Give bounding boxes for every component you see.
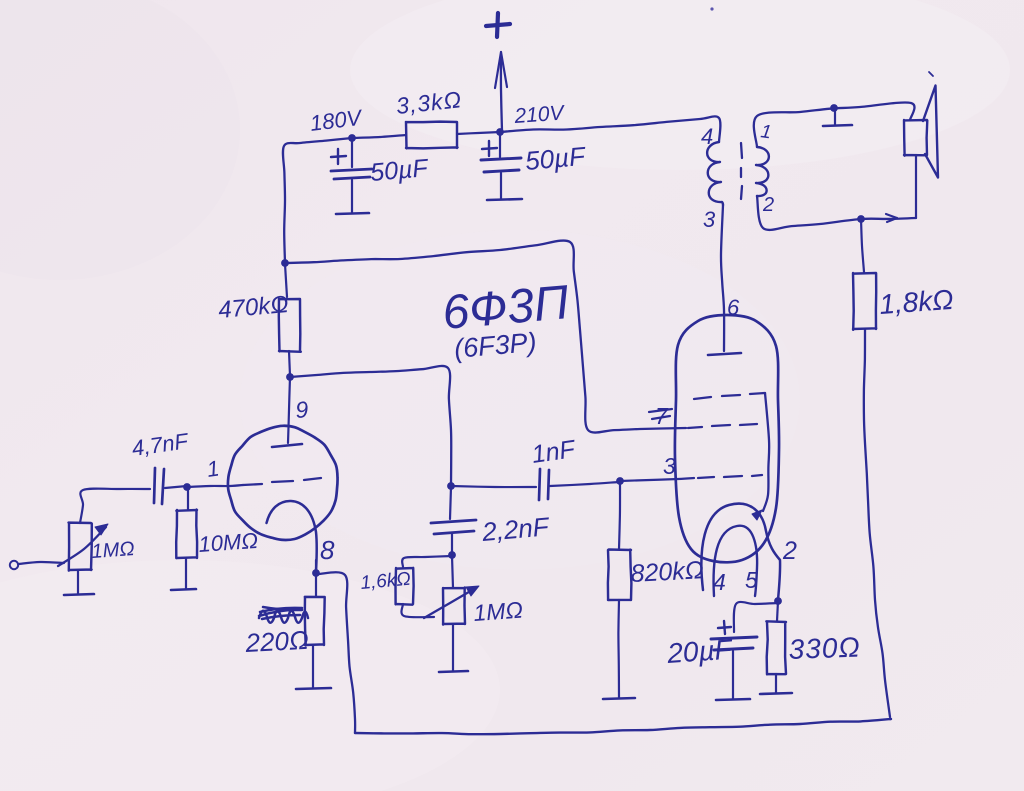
potentiometer 1M input body bbox=[69, 523, 92, 571]
label 20uF bbox=[665, 633, 734, 669]
potentiometer 1M tone body bbox=[443, 588, 465, 625]
tube V1 pentode envelope bbox=[675, 315, 779, 562]
resistor 10M body bbox=[176, 510, 197, 558]
paper speck marks bbox=[710, 7, 933, 76]
wire bottom rail bbox=[355, 719, 891, 734]
label pin 3 pentode bbox=[663, 453, 676, 479]
svg-text:4: 4 bbox=[713, 569, 726, 595]
resistor 220R body bbox=[305, 597, 325, 646]
resistor 470k body bbox=[279, 299, 301, 352]
pentode grid3 dashes bbox=[698, 475, 762, 478]
label pin 4 transformer bbox=[701, 124, 713, 149]
wire node to pentode grid pin 7 bbox=[285, 241, 686, 433]
label 180V bbox=[309, 105, 365, 136]
label 1MΩ input bbox=[91, 538, 135, 563]
ground 10M bbox=[171, 558, 196, 590]
svg-text:50µF: 50µF bbox=[369, 154, 430, 187]
ground secondary top bbox=[823, 109, 852, 126]
label 820kΩ bbox=[630, 556, 705, 588]
wire 3.3k to 210V node bbox=[457, 132, 500, 134]
wire input terminal to pot bbox=[18, 562, 64, 564]
ground input pot bbox=[64, 570, 94, 595]
arrow mark on speaker wire bbox=[886, 214, 897, 222]
pentode cathode outer arc bbox=[701, 504, 780, 600]
svg-text:1MΩ: 1MΩ bbox=[473, 597, 524, 626]
svg-text:4: 4 bbox=[701, 124, 713, 149]
wire junction to 470k bbox=[285, 264, 287, 297]
label pin 1 secondary bbox=[759, 121, 772, 143]
node pentode cathode junction bbox=[774, 597, 782, 605]
ground right 50uF bbox=[487, 173, 522, 200]
svg-text:9: 9 bbox=[295, 396, 310, 423]
wire cathode node to 330R bbox=[777, 601, 778, 621]
svg-text:50µF: 50µF bbox=[524, 141, 588, 176]
wire 470k to triode plate node bbox=[289, 351, 290, 376]
label pin 9 bbox=[295, 396, 310, 423]
wire 1.8k to bottom rail bbox=[864, 329, 890, 717]
label pin 2 secondary bbox=[762, 194, 774, 216]
ground 220R bbox=[296, 645, 331, 689]
label pin 8 bbox=[320, 535, 335, 565]
triode grid dashes bbox=[243, 478, 321, 485]
svg-text:8: 8 bbox=[320, 535, 335, 565]
wire junction down to 1.8k bbox=[861, 219, 864, 272]
label 50uF right bbox=[524, 141, 588, 176]
resistor 3.3k body bbox=[406, 122, 458, 149]
speaker cone bbox=[923, 86, 938, 178]
label 1,8kΩ bbox=[878, 284, 954, 320]
speaker driver box bbox=[904, 120, 927, 156]
svg-text:3: 3 bbox=[703, 207, 716, 232]
node triode plate junction bbox=[286, 373, 294, 381]
svg-text:5: 5 bbox=[745, 567, 758, 593]
label 220Ω bbox=[244, 625, 310, 658]
wire 1nF to 820k node bbox=[550, 482, 619, 486]
resistor 330R body bbox=[766, 621, 786, 674]
potentiometer 1M tone arrow bbox=[424, 586, 479, 618]
svg-text:1MΩ: 1MΩ bbox=[91, 538, 135, 563]
node speaker bottom junction bbox=[857, 215, 865, 223]
wire 4.7n to grid node bbox=[165, 486, 187, 488]
label pin 6 bbox=[727, 295, 740, 320]
transformer secondary coil bbox=[756, 147, 769, 196]
wire coupling node to 2.2nF bbox=[450, 487, 451, 519]
label 1nF bbox=[530, 435, 578, 469]
wire cathode node to 220R bbox=[315, 574, 317, 596]
svg-text:2: 2 bbox=[762, 194, 774, 216]
scribble above 220R bbox=[259, 607, 308, 623]
label 470kΩ bbox=[217, 291, 289, 324]
ground 330R bbox=[760, 674, 792, 694]
triode cathode arc bbox=[267, 501, 317, 572]
node left rail junction bbox=[281, 259, 289, 267]
node 210V junction bbox=[496, 128, 504, 136]
wire 820k node to pentode pin 3 bbox=[620, 478, 694, 481]
power supply + symbol bbox=[486, 13, 510, 37]
resistor 820k body bbox=[608, 550, 632, 601]
svg-text:1,6kΩ: 1,6kΩ bbox=[360, 569, 412, 594]
potentiometer 1M input arrow bbox=[58, 524, 108, 566]
ground 820k bbox=[603, 600, 635, 699]
wire pot to 4.7n cap bbox=[80, 489, 150, 523]
wire node to tone pot bbox=[452, 556, 453, 588]
wire secondary top to speaker bbox=[754, 102, 915, 147]
wire coupling node to 1nF bbox=[451, 486, 536, 487]
label pin 4 pentode bbox=[713, 569, 726, 595]
label pin 2 bbox=[782, 537, 797, 565]
label 210V bbox=[513, 101, 567, 128]
wire secondary bottom to speaker bbox=[757, 196, 916, 230]
node 820k junction bbox=[616, 477, 624, 485]
tube V1 triode envelope bbox=[228, 426, 338, 540]
ground 20uF bbox=[716, 651, 750, 700]
label pin 3 transformer bbox=[703, 207, 716, 232]
node coupling junction bbox=[447, 482, 455, 490]
pentode plate bar bbox=[708, 353, 741, 355]
label 6Ф3П bbox=[440, 276, 571, 340]
svg-text:330Ω: 330Ω bbox=[788, 632, 861, 665]
label 50uF left bbox=[369, 154, 430, 187]
node triode grid junction bbox=[183, 483, 191, 491]
capacitor 50uF left bbox=[331, 138, 372, 179]
wire node to 1.6k bbox=[402, 556, 452, 567]
label pin 1 triode bbox=[205, 455, 221, 481]
svg-text:2: 2 bbox=[782, 537, 797, 565]
transformer primary coil bbox=[707, 142, 723, 205]
label 3,3kΩ bbox=[395, 86, 463, 119]
node speaker top ground junction bbox=[830, 104, 838, 112]
wire triode plate pin 9 bbox=[288, 377, 290, 443]
wire 2.2nF to pot node bbox=[451, 534, 453, 554]
capacitor 20uF plates bbox=[711, 621, 757, 650]
wire triode cathode pin 8 down bbox=[315, 560, 317, 572]
pentode screen grid dashes bbox=[694, 393, 769, 511]
capacitor 4.7nF plates bbox=[154, 468, 164, 504]
transformer core dashes bbox=[741, 143, 742, 199]
cathode arrow mark bbox=[752, 510, 762, 520]
node 180V junction bbox=[348, 134, 356, 142]
svg-text:3: 3 bbox=[663, 453, 676, 479]
wire grid node to triode pin 1 bbox=[188, 485, 243, 487]
label 1MΩ tone bbox=[473, 597, 524, 626]
node cathode junction bbox=[312, 569, 320, 577]
label pin 5 pentode bbox=[745, 567, 758, 593]
ground tone pot bbox=[439, 624, 468, 672]
svg-text:6: 6 bbox=[727, 295, 740, 320]
resistor 1.6k body bbox=[396, 568, 414, 605]
label pin 7 scribbled bbox=[649, 403, 672, 429]
pentode cathode inner arc bbox=[714, 526, 758, 596]
capacitor 2.2nF plates bbox=[431, 520, 476, 534]
svg-text:1,8kΩ: 1,8kΩ bbox=[878, 284, 954, 320]
pentode control grid dashes bbox=[688, 424, 757, 428]
capacitor 1nF plates bbox=[539, 469, 549, 500]
wire cathode node to 20uF bbox=[734, 602, 778, 632]
wire junction to 3.3k resistor bbox=[352, 135, 406, 138]
svg-text:210V: 210V bbox=[513, 101, 567, 128]
svg-text:20µF: 20µF bbox=[665, 633, 734, 669]
svg-text:220Ω: 220Ω bbox=[244, 625, 310, 658]
wire transformer pin 3 to pentode plate pin 6 bbox=[721, 205, 724, 351]
wire speaker to bottom wire bbox=[915, 155, 917, 218]
wire 1.6k bottom to pot wiper bbox=[401, 604, 434, 617]
label 330Ω bbox=[788, 632, 861, 665]
svg-text:820kΩ: 820kΩ bbox=[630, 556, 705, 588]
wire plate junction right and down to 2.2n node bbox=[290, 366, 451, 485]
svg-text:2,2nF: 2,2nF bbox=[480, 511, 552, 547]
label (6F3P) bbox=[453, 327, 538, 364]
label 10MΩ bbox=[198, 528, 259, 557]
input terminal bbox=[10, 561, 18, 569]
wire 180V rail to left corner and down bbox=[283, 138, 352, 263]
resistor 1.8k body bbox=[853, 273, 876, 330]
ground left 50uF bbox=[336, 180, 369, 214]
label 2,2nF bbox=[480, 511, 552, 547]
wire grid node to 10M bbox=[187, 488, 189, 509]
node tone pot junction bbox=[448, 551, 456, 559]
power supply arrow up bbox=[495, 52, 507, 131]
wire 210V node to transformer pin 4 bbox=[500, 116, 720, 142]
capacitor 50uF right bbox=[481, 132, 521, 172]
label 4,7nF bbox=[130, 428, 191, 461]
label 1,6kΩ bbox=[360, 569, 412, 594]
triode plate bar bbox=[272, 444, 302, 447]
wire cathode node to bottom rail bbox=[318, 572, 355, 733]
wire 820k node down bbox=[619, 483, 620, 549]
svg-text:10MΩ: 10MΩ bbox=[198, 528, 259, 557]
